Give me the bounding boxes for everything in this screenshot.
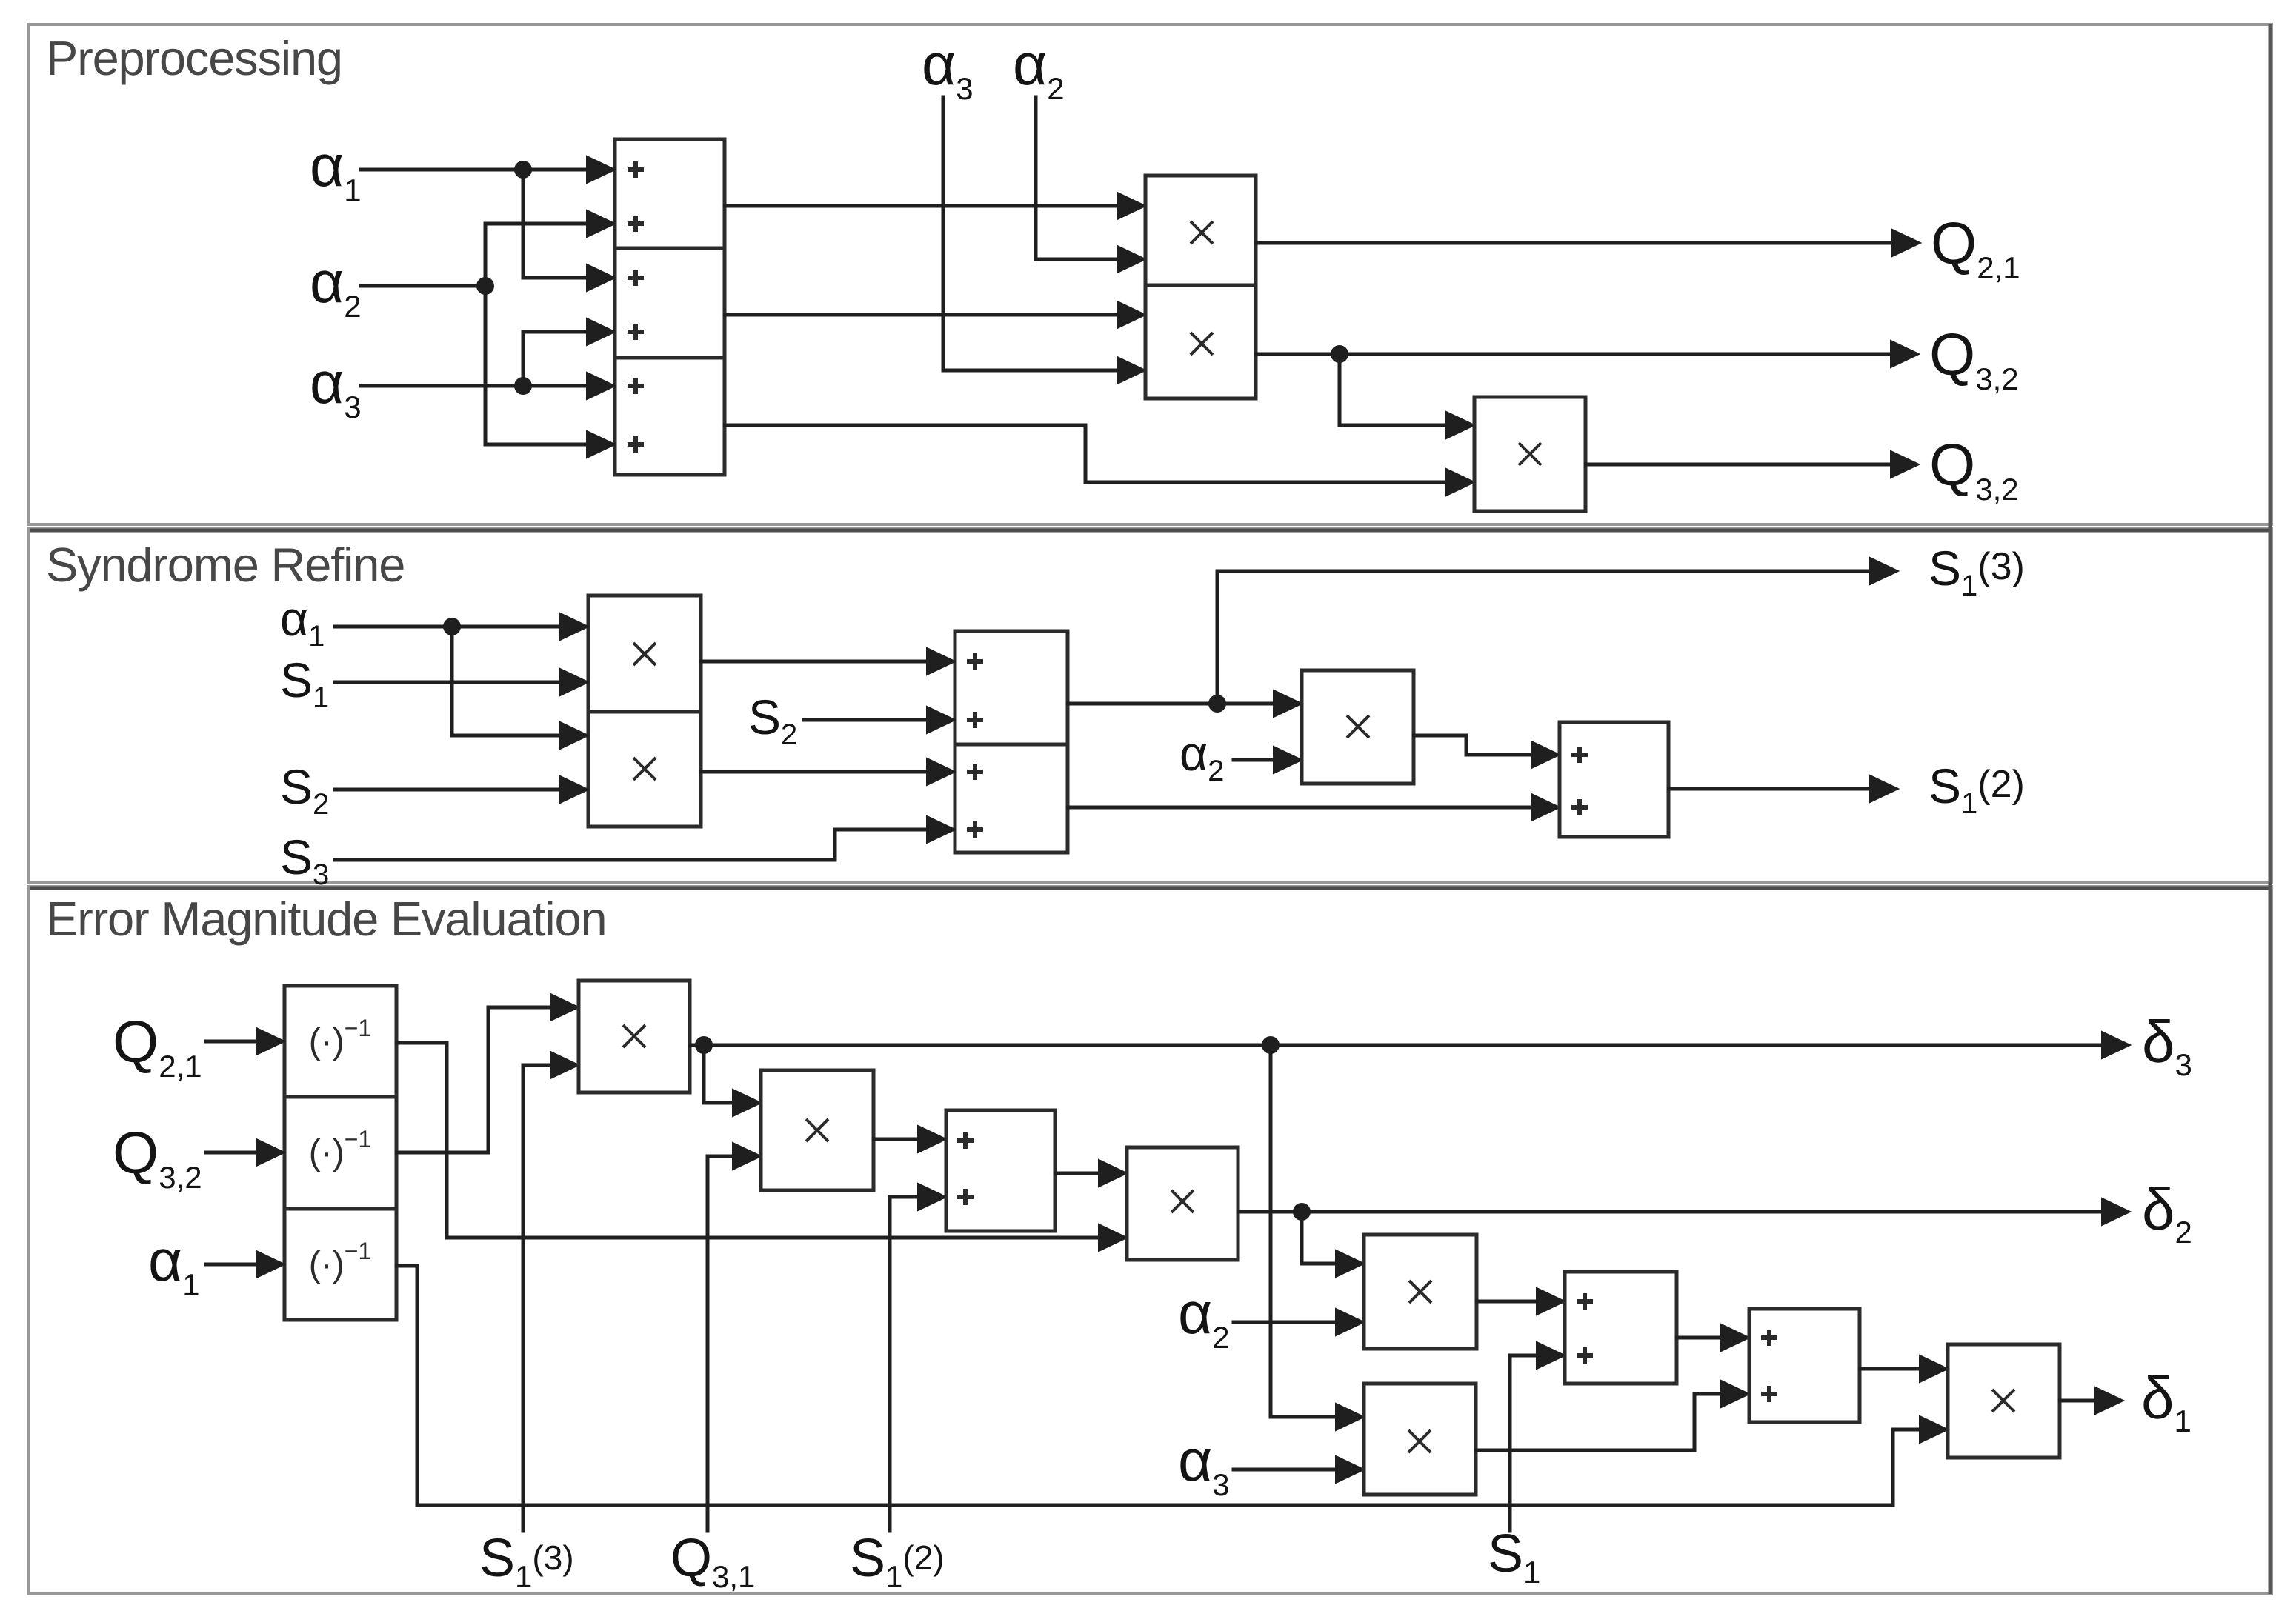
times sign M1: [1191, 221, 1213, 244]
arrowhead mult M1 input1: [1117, 193, 1145, 219]
inverter divider 2: [284, 1207, 396, 1211]
junction alpha3: [514, 377, 532, 395]
arrowhead delta1: [2095, 1387, 2123, 1414]
junction MA out: [695, 1036, 713, 1054]
arrowhead S1(2): [1870, 775, 1898, 802]
arrowhead MF input1: [1920, 1355, 1948, 1382]
wire MA out branch -> mult MB input1: [704, 1045, 733, 1103]
junction S1(3) takeoff: [1208, 695, 1226, 713]
wire top alpha3 -> mult M2 input2: [943, 97, 1118, 370]
wire mult M2 out -> Q3,2: [1256, 353, 1892, 356]
arrowhead adder A3 input2: [587, 431, 615, 458]
times sign M3: [1519, 443, 1541, 465]
wire alpha2 -> mult M6 input2: [1234, 758, 1274, 762]
plus sign C input2: [1571, 799, 1588, 815]
wire mult MC out -> delta2: [1238, 1210, 2103, 1214]
times sign MC: [1171, 1190, 1194, 1212]
plus sign E input2: [1761, 1386, 1777, 1402]
wire delta3 branch -> mult ME input1: [1271, 1045, 1337, 1417]
arrowhead delta2: [2102, 1198, 2130, 1225]
arrowhead E input1: [1721, 1324, 1749, 1351]
multiplier MF: [1948, 1344, 2060, 1458]
arrowhead C2 input2: [918, 1184, 946, 1210]
arrowhead M5 input1: [560, 722, 588, 749]
plus sign A input 6: [628, 436, 644, 453]
junction alpha1 panel2: [443, 618, 461, 635]
junction alpha2: [476, 277, 494, 295]
wire mult MF out -> delta1: [2060, 1399, 2097, 1403]
panel: Preprocessing frame: [28, 24, 2272, 524]
wire alpha3 -> mult ME input2: [1234, 1468, 1337, 1472]
times sign M5: [633, 758, 656, 780]
arrowhead Q2,1: [1892, 230, 1920, 256]
wire adder A1 out -> mult M1 input1: [725, 204, 1118, 208]
wire Q3,1 bottom riser -> mult MB input2: [708, 1156, 733, 1531]
plus sign A input 3: [628, 270, 644, 286]
arrowhead ME input1: [1336, 1404, 1364, 1430]
arrowhead D input2: [1537, 1342, 1565, 1369]
junction alpha1: [514, 161, 532, 179]
junction Q3,2 branch: [1331, 345, 1348, 363]
arrowhead Q3,2 second: [1891, 451, 1919, 478]
plus sign C2 input1: [957, 1132, 974, 1149]
wire alpha2 -> junction: [361, 284, 485, 288]
arrowhead M6 input2: [1274, 747, 1302, 773]
plus sign A input 2: [628, 216, 644, 232]
arrowhead adder A3 input1: [587, 373, 615, 399]
arrowhead B input3: [927, 758, 955, 785]
wire alpha3 branch -> adder A2 input2: [523, 332, 588, 386]
arrowhead M6 input1: [1274, 690, 1302, 717]
wire S1(2) bottom riser -> adder C2 input2: [890, 1197, 919, 1531]
plus sign A input 5: [628, 378, 644, 394]
svg-text:Error Magnitude Evaluation: Error Magnitude Evaluation: [46, 892, 606, 946]
arrowhead MC input2: [1099, 1224, 1127, 1251]
adder C2: [946, 1110, 1055, 1231]
multiplier MC: [1127, 1147, 1238, 1260]
multiplier column M4-M5: [588, 596, 701, 827]
plus sign D input1: [1577, 1293, 1593, 1310]
arrowhead MB input2: [733, 1143, 761, 1170]
adder A divider 1: [615, 247, 725, 250]
adder D: [1565, 1272, 1677, 1384]
arrowhead Q3,2: [1891, 341, 1919, 367]
mult column divider: [1145, 284, 1256, 287]
wire Q3,2 -> inverter2: [206, 1151, 257, 1155]
arrowhead M5 input2: [560, 776, 588, 803]
arrowhead MA input1: [550, 994, 579, 1021]
arrowhead inverter3 input: [256, 1251, 284, 1278]
wire mult MA out -> delta3: [690, 1044, 2103, 1047]
arrowhead D input1: [1537, 1288, 1565, 1315]
adder column A (3 cells): [615, 139, 725, 475]
wire alpha2 -> mult MD input2: [1234, 1321, 1337, 1324]
arrowhead mult M2 input1: [1117, 301, 1145, 328]
adder E: [1749, 1309, 1860, 1422]
arrowhead E input2: [1721, 1381, 1749, 1407]
wire adder A3 out -> mult M3 input2: [725, 425, 1447, 482]
wire alpha1 -> inverter3: [206, 1263, 257, 1267]
wire adder A2 out -> mult M2 input1: [725, 313, 1118, 317]
plus sign B input 3: [967, 764, 983, 780]
wire S1 bottom riser -> adder D input2: [1510, 1355, 1537, 1531]
wire S3 -> adder B input4: [335, 830, 928, 860]
wire alpha2 branch up -> adder A1 input2: [485, 224, 588, 286]
plus sign B input 4: [967, 821, 983, 838]
wire alpha1 -> mult M4 input1: [335, 625, 561, 629]
multiplier column M1-M2: [1145, 176, 1256, 398]
times sign MD: [1409, 1281, 1431, 1303]
times sign M4: [633, 643, 656, 665]
wire mult MD out -> adder D input1: [1477, 1300, 1537, 1304]
panel frame accent: dark top edge of Syndrome Refine: [30, 529, 2270, 533]
junction delta3 line to ME: [1262, 1036, 1280, 1054]
wire mult M3 out -> Q3,2 (second): [1585, 463, 1892, 467]
wire Q2,1 -> inverter1: [206, 1040, 257, 1044]
svg-text:Preprocessing: Preprocessing: [46, 31, 342, 85]
wire adder C out -> S1(2): [1668, 787, 1871, 791]
wire delta2 branch -> mult MD input1: [1302, 1212, 1337, 1264]
plus sign C input1: [1571, 747, 1588, 763]
panel frame accent: dark top edge of Error Magnitude Evaluation: [30, 887, 2270, 890]
wire S2 mid -> adder B input2: [804, 718, 928, 722]
wire adder D out -> adder E input1: [1677, 1336, 1722, 1340]
arrowhead MD input2: [1336, 1309, 1364, 1335]
adder B divider: [955, 743, 1068, 747]
plus sign D input2: [1577, 1347, 1593, 1364]
arrowhead MD input1: [1336, 1250, 1364, 1277]
wire inverter2 out -> mult MA input1: [396, 1007, 551, 1152]
wire top alpha2 -> mult M1 input2: [1036, 97, 1118, 259]
wire adder B out1 -> mult M6 input1: [1068, 702, 1274, 706]
wire alpha1 branch -> mult M5 input1: [452, 627, 561, 735]
adder column B (2 cells): [955, 631, 1068, 853]
arrowhead adder A1 input1: [587, 156, 615, 183]
wire S2 -> mult M5 input2: [335, 788, 561, 792]
arrowhead B input2: [927, 707, 955, 733]
arrowhead mult M3 input2: [1446, 469, 1474, 496]
plus sign A input 4: [628, 324, 644, 340]
multiplier MA: [579, 981, 690, 1092]
arrowhead B input4: [927, 816, 955, 843]
arrowhead MC input1: [1099, 1160, 1127, 1187]
arrowhead M4 input2: [560, 669, 588, 695]
wire alpha1 -> adder A1 input1: [361, 168, 588, 172]
inverter divider 1: [284, 1095, 396, 1099]
arrowhead B input1: [927, 648, 955, 675]
wire mult M1 out -> Q2,1: [1256, 241, 1894, 245]
plus sign E input1: [1761, 1330, 1777, 1346]
wire mult M6 out -> adder C input1: [1414, 735, 1532, 755]
arrowhead inverter1 input: [256, 1028, 284, 1055]
adder C: [1560, 722, 1668, 837]
arrowhead MA input2: [550, 1052, 579, 1078]
times sign MA: [623, 1025, 645, 1047]
wire mult M5 out -> adder B input3: [701, 770, 928, 774]
arrowhead ME input2: [1336, 1456, 1364, 1483]
times sign ME: [1408, 1430, 1431, 1452]
times sign M6: [1347, 715, 1369, 738]
adder A divider 2: [615, 356, 725, 360]
multiplier MD: [1364, 1235, 1477, 1349]
multiplier M3: [1474, 397, 1585, 511]
wire adder C2 out -> mult MC input1: [1055, 1172, 1099, 1175]
wire alpha2 branch down -> adder A3 input2: [485, 286, 588, 444]
wire inverter1 out -> mult MC input2 (long): [396, 1043, 1099, 1238]
panel: Error Magnitude Evaluation frame: [28, 887, 2272, 1594]
junction delta2 line to MD: [1293, 1203, 1311, 1221]
arrowhead delta3: [2102, 1032, 2130, 1058]
arrowhead inverter2 input: [256, 1139, 284, 1166]
wire mult ME out -> adder E input2: [1476, 1394, 1722, 1450]
arrowhead mult M3 input1: [1446, 412, 1474, 438]
arrowhead C input2: [1531, 794, 1560, 821]
multiplier MB: [761, 1070, 874, 1190]
wire mult M4 out -> adder B input1: [701, 660, 928, 664]
arrowhead adder A1 input2: [587, 210, 615, 237]
arrowhead adder A2 input1: [587, 264, 615, 291]
wire alpha1 branch -> adder A2 input1: [523, 170, 588, 278]
mult M4-M5 divider: [588, 710, 701, 714]
wire S1(3) riser: [1217, 571, 1871, 704]
arrowhead M4 input1: [560, 613, 588, 640]
wire S1(3) bottom riser -> mult MA input2: [523, 1065, 551, 1531]
arrowhead S1(3): [1870, 558, 1898, 584]
wire Q3,2 branch -> mult M3 input1: [1340, 354, 1447, 425]
wire S1 -> mult M4 input2: [335, 681, 561, 684]
wire adder E out -> mult MF input1: [1860, 1367, 1920, 1371]
arrowhead mult M1 input2: [1117, 246, 1145, 273]
arrowhead MB input1: [733, 1090, 761, 1116]
wire alpha3 -> adder A3 input1: [361, 384, 588, 388]
plus sign A input 1: [628, 161, 644, 178]
wire mult MB out -> adder C2 input1: [874, 1138, 919, 1141]
plus sign C2 input2: [957, 1189, 974, 1205]
inverter column (3 cells): [284, 986, 396, 1320]
arrowhead mult M2 input2: [1117, 357, 1145, 384]
arrowhead adder A2 input2: [587, 318, 615, 345]
panel frame accent: dark right edge: [2269, 24, 2272, 1594]
plus sign B input 2: [967, 712, 983, 728]
multiplier ME: [1364, 1384, 1476, 1495]
wire adder B out2 -> adder C input2: [1068, 806, 1532, 810]
times sign M2: [1191, 333, 1213, 355]
panel: Syndrome Refine frame: [28, 529, 2272, 883]
times sign MB: [806, 1119, 828, 1141]
times sign MF: [1992, 1390, 2014, 1412]
arrowhead C2 input1: [918, 1126, 946, 1152]
svg-text:Syndrome Refine: Syndrome Refine: [46, 538, 405, 592]
arrowhead C input1: [1531, 741, 1560, 768]
plus sign B input 1: [967, 653, 983, 670]
wire inverter3 out -> bottom rail -> mult MF input2: [396, 1266, 1920, 1505]
multiplier M6: [1302, 670, 1414, 784]
arrowhead MF input2: [1920, 1416, 1948, 1443]
